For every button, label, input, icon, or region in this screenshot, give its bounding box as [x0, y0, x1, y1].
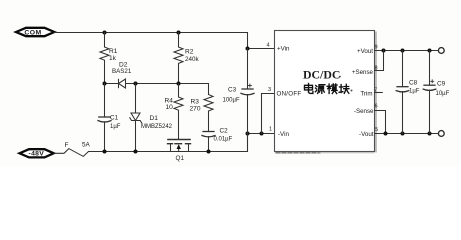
junction -Vout at C8 — [401, 132, 405, 136]
wire Trim stub — [375, 92, 383, 94]
svg-text:3: 3 — [268, 87, 271, 93]
svg-text:C1: C1 — [110, 115, 119, 122]
svg-text:COM: COM — [24, 29, 41, 36]
junction mid bus at D1 — [134, 82, 138, 86]
junction bottom rail at C2 — [207, 150, 211, 154]
svg-text:270: 270 — [190, 106, 201, 113]
node +Vin junction — [246, 47, 250, 51]
svg-text:+Sense: +Sense — [352, 69, 374, 76]
svg-text:-Vout: -Vout — [359, 131, 374, 138]
capacitor C2 — [202, 128, 233, 152]
transistor Q1 — [168, 140, 191, 162]
svg-text:BAS21: BAS21 — [112, 68, 132, 75]
svg-text:9: 9 — [375, 45, 378, 51]
svg-text:100µF: 100µF — [223, 98, 240, 104]
wire -Vout rail — [375, 133, 439, 135]
svg-text:C9: C9 — [437, 81, 446, 88]
wire top rail COM to corner — [54, 33, 274, 49]
junction bottom rail at C1 — [103, 150, 107, 154]
wire mid bus — [105, 84, 209, 95]
wire +Sense loop — [375, 51, 384, 71]
junction top rail at R1 — [103, 31, 107, 35]
svg-text:C8: C8 — [409, 80, 418, 87]
junction +Vout at C8 — [401, 49, 405, 53]
capacitor C1 — [98, 84, 121, 152]
stray mark after DC/DC — [339, 76, 341, 78]
svg-text:5: 5 — [375, 127, 378, 133]
junction -Vout at -Sense — [384, 132, 388, 136]
port COM — [16, 28, 54, 37]
svg-text:-Vin: -Vin — [278, 131, 289, 138]
terminal -Vout — [438, 131, 444, 137]
svg-text:6: 6 — [375, 104, 378, 110]
svg-text:DC/DC: DC/DC — [303, 68, 340, 82]
resistor R1 — [100, 33, 118, 84]
junction +Vout at +Sense — [382, 49, 386, 53]
svg-text:+Vout: +Vout — [357, 48, 373, 55]
junction mid bus at R1/C1 — [103, 82, 107, 86]
resistor R4 — [165, 84, 184, 140]
junction top rail at R2 — [177, 31, 181, 35]
capacitor C8 — [396, 51, 420, 134]
terminal +Vout — [438, 48, 444, 54]
resistor R2 — [174, 33, 200, 84]
zener D1 MMBZ5242 — [130, 84, 173, 152]
svg-text:ON/OFF: ON/OFF — [277, 91, 302, 98]
svg-text:Trim: Trim — [360, 91, 372, 98]
svg-text:C3: C3 — [228, 87, 237, 94]
wire -Sense loop — [375, 111, 386, 134]
junction +Vout at C9 — [428, 49, 432, 53]
fuse F 5A — [54, 142, 90, 157]
svg-text:-Sense: -Sense — [354, 108, 374, 115]
svg-text:1: 1 — [269, 127, 272, 133]
svg-text:-48V: -48V — [29, 151, 45, 158]
svg-text:R3: R3 — [191, 99, 200, 106]
resistor R3 — [190, 95, 214, 132]
svg-text:R2: R2 — [185, 49, 194, 56]
svg-text:F: F — [65, 142, 69, 149]
junction bottom rail at D1 — [134, 150, 138, 154]
capacitor C9 — [423, 51, 449, 134]
svg-text:+Vin: +Vin — [277, 46, 290, 53]
wire +Vout rail — [375, 50, 439, 52]
op-amp U1 DC/DC module box — [275, 31, 377, 153]
wire ON/OFF — [262, 94, 275, 134]
junction -Vin stub at ON/OFF — [260, 132, 264, 136]
junction -Vin stub at C3 — [246, 132, 250, 136]
svg-text:5A: 5A — [82, 142, 91, 149]
svg-text:C2: C2 — [220, 128, 229, 135]
svg-text:1µF: 1µF — [110, 124, 121, 130]
svg-text:0.01µF: 0.01µF — [214, 137, 233, 143]
junction mid bus at R2/R4 — [177, 82, 181, 86]
svg-text:10µF: 10µF — [436, 91, 450, 97]
svg-text:10: 10 — [166, 104, 174, 111]
wire bottom rail — [89, 134, 275, 152]
svg-text:MMBZ5242: MMBZ5242 — [141, 124, 173, 130]
module Chinese text 电源模块 — [305, 84, 349, 94]
svg-text:D1: D1 — [150, 115, 159, 122]
svg-text:4: 4 — [267, 43, 270, 49]
junction -Vout at C9 — [428, 132, 432, 136]
svg-text:240k: 240k — [185, 56, 200, 63]
svg-text:Q1: Q1 — [176, 155, 185, 162]
stray mark after 模块 — [351, 90, 353, 92]
diode D2 BAS21 — [112, 62, 132, 89]
svg-text:1µF: 1µF — [409, 89, 420, 95]
svg-text:1k: 1k — [109, 55, 117, 62]
port -48V — [20, 149, 54, 158]
svg-text:R1: R1 — [109, 48, 118, 55]
capacitor C3 — [223, 49, 255, 152]
